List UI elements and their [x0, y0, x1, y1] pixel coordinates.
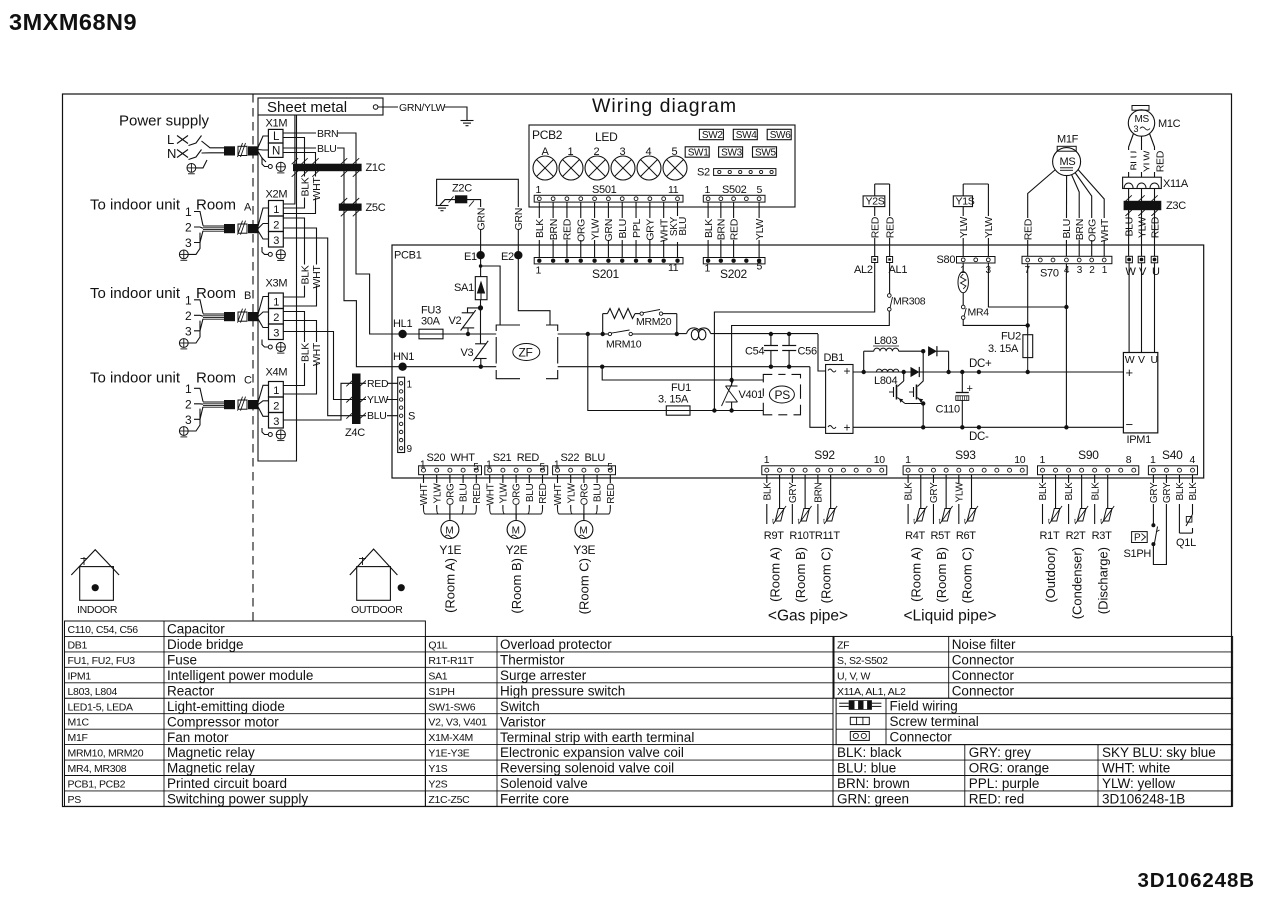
- svg-text:RED: RED: [869, 216, 881, 238]
- svg-text:BLU: BLU: [585, 452, 606, 464]
- wire AL2 to FU1 line: [714, 263, 874, 411]
- connector S 9-pin: [398, 377, 405, 452]
- switching power supply PS box: [763, 374, 772, 382]
- svg-text:YLW: YLW: [566, 483, 577, 504]
- connector S201 pin dot: [661, 259, 665, 263]
- solenoid valve Y2S box: [863, 196, 885, 207]
- wire U to IPM1: [1154, 263, 1156, 353]
- svg-text:S201: S201: [592, 267, 619, 281]
- svg-text:1: 1: [764, 454, 770, 466]
- wire S502 to S202: [733, 202, 735, 257]
- symbol legend rows grid: [836, 698, 1233, 744]
- node C110 bottom: [960, 425, 964, 429]
- wire S70-4 BLU down: [1065, 264, 1067, 428]
- svg-text:S90: S90: [1078, 448, 1099, 462]
- X4M terminal 2 box: [269, 397, 284, 413]
- ground symbol top: [461, 120, 474, 122]
- svg-text:GRY: GRY: [929, 482, 940, 503]
- label WHT vertical X1M-X2M: [311, 177, 322, 198]
- svg-text:3MXM68N9: 3MXM68N9: [9, 9, 137, 35]
- svg-text:V: V: [1139, 266, 1147, 278]
- svg-text:SA1: SA1: [428, 670, 447, 682]
- noise filter ZF box: [496, 325, 520, 331]
- X3M earth hook wire: [262, 340, 268, 348]
- svg-text:Z4C: Z4C: [345, 427, 365, 439]
- svg-text:V3: V3: [461, 347, 474, 359]
- svg-text:Intelligent power module: Intelligent power module: [167, 668, 313, 683]
- wire S501 to S201: [677, 202, 679, 257]
- svg-text:N: N: [167, 146, 176, 161]
- svg-text:Diode bridge: Diode bridge: [167, 637, 244, 652]
- switch SW1: [685, 147, 709, 157]
- svg-text:S40: S40: [1162, 448, 1183, 462]
- wire S20 ORG to bundle: [449, 505, 451, 519]
- node DC+ dot: [977, 370, 981, 374]
- svg-text:3: 3: [185, 324, 192, 338]
- svg-text:W: W: [1126, 266, 1137, 278]
- node MRM left: [601, 332, 605, 336]
- svg-text:(Room C): (Room C): [818, 547, 833, 603]
- svg-text:C: C: [244, 375, 252, 387]
- svg-text:Y1S: Y1S: [956, 196, 975, 208]
- thermistor R4T: [920, 475, 922, 480]
- label YLW row: [366, 394, 387, 405]
- svg-text:BLK: BLK: [299, 343, 311, 362]
- svg-text:WHT: WHT: [311, 265, 323, 289]
- X11A socket arc: [1150, 183, 1159, 188]
- wire S40 BLK: [1191, 475, 1193, 483]
- connector S201 pin dot: [648, 259, 652, 263]
- label WHT vertical M1F: [1099, 218, 1110, 240]
- S1PH P box: [1132, 532, 1148, 543]
- connector S22: [553, 466, 616, 475]
- svg-text:SW1-SW6: SW1-SW6: [428, 701, 475, 713]
- bus X2M-X3M BLK: [283, 218, 304, 297]
- svg-text:OUTDOOR: OUTDOOR: [351, 604, 403, 616]
- label BRN vertical: [548, 218, 559, 240]
- svg-text:(Room B): (Room B): [793, 547, 808, 603]
- X3M terminal 2 box: [269, 309, 284, 325]
- DB1 tilde top: [828, 369, 836, 372]
- X4M earth symbol: [276, 430, 285, 439]
- wire X2M-3 to Z4C BLU row: [283, 238, 352, 416]
- wire sheet metal to GRN/YLW: [378, 106, 398, 108]
- svg-text:L804: L804: [874, 375, 897, 387]
- overload protector Q1L: [1186, 514, 1193, 526]
- connector S80: [957, 257, 996, 264]
- wire Z4C YLW row: [361, 399, 398, 401]
- solenoid Y2S wires: [874, 184, 876, 196]
- thermistor R9T: [779, 475, 781, 480]
- label BLK vertical X1M-X2M: [299, 177, 310, 198]
- svg-text:Electronic expansion valve coi: Electronic expansion valve coil: [500, 745, 684, 760]
- wire FU3 to ZF: [443, 333, 496, 335]
- svg-text:3D106248B: 3D106248B: [1137, 869, 1255, 892]
- svg-text:BLK: BLK: [534, 219, 546, 238]
- connector S502 pin: [706, 197, 710, 201]
- svg-text:Reactor: Reactor: [167, 683, 215, 698]
- wire S70-7 RED down: [1027, 264, 1029, 326]
- wire down to DB1 top: [818, 334, 826, 371]
- svg-text:S21: S21: [493, 452, 512, 464]
- svg-text:RED: RED: [538, 483, 549, 503]
- svg-text:Y1S: Y1S: [428, 763, 447, 775]
- M1F wire BLU: [1065, 176, 1067, 257]
- diode D-up: [928, 346, 937, 356]
- svg-text:R9T: R9T: [764, 530, 784, 542]
- wire S80-3 to DC- drop: [988, 263, 1066, 308]
- room B earth symbol: [179, 339, 188, 348]
- svg-text:FU1: FU1: [671, 382, 691, 394]
- svg-text:S502: S502: [722, 184, 747, 196]
- wire S93 YLW: [958, 475, 960, 483]
- Z1C hatch marks: [353, 158, 359, 164]
- connector S501 pin: [565, 197, 569, 201]
- wire S20 YLW: [436, 475, 438, 483]
- node E1: [476, 251, 484, 259]
- right legend table grid: [834, 636, 1233, 698]
- wire E2 GRN to ground: [437, 179, 519, 252]
- connector S80 pin: [986, 258, 990, 262]
- connector S501 pin: [593, 197, 597, 201]
- svg-text:Y3E: Y3E: [573, 543, 595, 557]
- fuse FU3: [419, 329, 443, 339]
- expansion valve motor Y1E: [441, 521, 459, 539]
- wire SA1 to V-node: [480, 300, 482, 308]
- transistor Q-igbt2: [918, 351, 924, 386]
- wire L stub BRN: [283, 132, 316, 134]
- svg-text:BLK: black: BLK: black: [837, 745, 902, 760]
- DB1 tilde bottom: [828, 426, 836, 429]
- wire S40 pin2 loop: [1153, 504, 1166, 565]
- wire N jumper bus WHT: [283, 153, 316, 214]
- earth hook wire: [196, 160, 207, 168]
- svg-text:PPL: purple: PPL: purple: [969, 776, 1040, 791]
- outer border frame: [63, 94, 1232, 807]
- connector S201 pin dot: [620, 259, 624, 263]
- connector S20: [419, 466, 482, 475]
- connector S pin: [399, 438, 402, 441]
- node V401 bottom: [729, 408, 733, 412]
- connector S pin: [399, 446, 402, 449]
- svg-text:Y2S: Y2S: [428, 779, 447, 791]
- svg-text:BRN: BRN: [716, 219, 728, 240]
- svg-text:1: 1: [185, 205, 192, 219]
- wire ZF out bottom: [558, 366, 810, 368]
- connector S501 pin: [676, 197, 680, 201]
- svg-text:A: A: [542, 146, 550, 158]
- room C cable fanout: [258, 385, 269, 402]
- svg-text:S20: S20: [427, 452, 446, 464]
- svg-text:SW1: SW1: [688, 148, 710, 159]
- svg-text:S1PH: S1PH: [428, 686, 454, 698]
- connector S201 pin dot: [634, 259, 638, 263]
- svg-text:Fuse: Fuse: [167, 653, 197, 668]
- fuse FU2: [1027, 325, 1029, 334]
- ferrite core Z3C: [1124, 201, 1162, 210]
- LED 5 lamp: [663, 156, 687, 180]
- svg-text:RED: RED: [884, 216, 896, 238]
- label BLU vertical M1C top: [1123, 150, 1134, 172]
- svg-text:PPL: PPL: [631, 219, 643, 238]
- svg-text:(Room B): (Room B): [934, 547, 949, 603]
- connector S502 pin: [744, 197, 748, 201]
- svg-text:GRY: grey: GRY: grey: [969, 745, 1031, 760]
- thermistor R2T: [1081, 475, 1083, 480]
- svg-text:BLK: BLK: [299, 265, 311, 284]
- svg-text:GRN: GRN: [513, 208, 525, 230]
- svg-text:RED: RED: [562, 218, 574, 240]
- label YLW vertical: [589, 218, 600, 240]
- wire S502 to S202: [707, 202, 709, 257]
- LED 4 lamp: [637, 156, 661, 180]
- svg-text:WHT: WHT: [311, 342, 323, 366]
- wire S1PH pin1: [1152, 504, 1154, 524]
- node C110 top: [960, 370, 964, 374]
- connector X11A: [1123, 177, 1162, 188]
- Z3C hatch marks: [1151, 195, 1157, 201]
- wire Z3C to YLW terminal: [1141, 210, 1143, 256]
- svg-text:RED: RED: [517, 452, 540, 464]
- wire E1 to SA1: [480, 255, 482, 276]
- svg-text:BLU: BLU: [678, 217, 689, 236]
- label ORG vertical M1F: [1087, 218, 1098, 240]
- switch arm N: [189, 150, 202, 160]
- label BLU vertical M1C bottom: [1123, 216, 1134, 238]
- reactor L804: [876, 369, 898, 372]
- wire S40 GRY: [1165, 475, 1167, 483]
- indoor/outdoor dashed boundary: [252, 94, 254, 621]
- svg-text:Room: Room: [196, 197, 236, 214]
- svg-text:(Room A): (Room A): [443, 558, 458, 613]
- svg-text:MR308: MR308: [893, 296, 926, 308]
- svg-text:Z5C: Z5C: [366, 202, 386, 214]
- svg-text:GRN: green: GRN: green: [837, 792, 909, 807]
- svg-text:3: 3: [1077, 265, 1083, 276]
- wire FU1 to PS: [690, 410, 763, 412]
- svg-text:Varistor: Varistor: [500, 714, 546, 729]
- svg-text:C56: C56: [798, 346, 817, 358]
- connector S pin: [399, 414, 402, 417]
- connector S501 pin: [551, 197, 555, 201]
- bus X3M-X4M WHT: [283, 321, 316, 395]
- svg-text:BRN: brown: BRN: brown: [837, 776, 910, 791]
- wire S501 to S201: [663, 202, 665, 257]
- svg-text:IPM1: IPM1: [68, 670, 92, 682]
- node C56 top: [787, 332, 791, 336]
- thermistor R10T: [804, 475, 806, 480]
- high pressure switch S1PH: [1151, 523, 1155, 527]
- wire V401 bottom stub: [731, 402, 733, 411]
- label BRN vertical: [716, 218, 727, 240]
- wire S21 YLW: [502, 475, 504, 483]
- expansion valve motor Y2E: [507, 521, 525, 539]
- X4M earth hook wire: [262, 428, 268, 435]
- connector S2 pin: [728, 170, 731, 173]
- resistor MRM20: [607, 309, 635, 319]
- transistor Q-igbt1: [903, 372, 905, 381]
- node BLU drop join: [1064, 305, 1068, 309]
- svg-text:(Room B): (Room B): [509, 558, 524, 614]
- wire N stub BLU: [283, 147, 316, 149]
- svg-text:V2: V2: [449, 315, 462, 327]
- wire node to V3: [480, 308, 482, 344]
- svg-text:5: 5: [672, 146, 678, 158]
- connector S70 pin: [1102, 258, 1106, 262]
- wire MRM up left: [602, 314, 604, 334]
- svg-text:GRY: GRY: [788, 482, 799, 503]
- screw terminal W: [1126, 256, 1133, 263]
- connector S2 pin: [718, 170, 721, 173]
- svg-text:E1: E1: [464, 251, 477, 263]
- svg-text:RED: RED: [1149, 216, 1161, 238]
- wire S21 RED: [542, 475, 544, 483]
- node V401 top: [729, 378, 733, 382]
- svg-text:IPM1: IPM1: [1127, 434, 1152, 446]
- svg-text:BLK: BLK: [904, 482, 915, 501]
- svg-text:U: U: [1151, 354, 1158, 366]
- svg-text:YLW: YLW: [589, 219, 601, 240]
- svg-text:BRN: BRN: [813, 482, 824, 502]
- wire S22 ORG: [583, 475, 585, 483]
- svg-text:C54: C54: [745, 346, 764, 358]
- label YLW vertical S80-1: [958, 216, 969, 238]
- svg-text:Room: Room: [196, 285, 236, 302]
- connector S202 pin dot: [757, 259, 761, 263]
- M1C wire YLW: [1141, 136, 1143, 177]
- Z4C hatch marks: [346, 413, 352, 419]
- svg-text:Magnetic relay: Magnetic relay: [167, 745, 255, 760]
- wire S90 BLK: [1094, 475, 1096, 483]
- PCB1 board box: [392, 245, 1204, 478]
- screw terminal U: [1151, 256, 1158, 263]
- svg-text:Thermistor: Thermistor: [500, 653, 565, 668]
- ferrite core Z5C: [339, 204, 362, 211]
- svg-text:LED1-5, LEDA: LED1-5, LEDA: [68, 701, 134, 713]
- svg-text:PS: PS: [775, 388, 791, 402]
- PCB2 board box: [529, 125, 795, 207]
- connector S501 pin: [579, 197, 583, 201]
- svg-text:t: t: [939, 518, 941, 525]
- wire HN1 branch to PS: [602, 367, 763, 380]
- wire node to V2: [468, 308, 481, 313]
- svg-text:Y2S: Y2S: [866, 196, 885, 208]
- svg-text:R11T: R11T: [815, 530, 840, 542]
- wire X11A to Z3C: [1154, 189, 1156, 216]
- Z1C hatch marks: [292, 158, 298, 164]
- X2M terminal 2 box: [269, 216, 284, 232]
- connector S501 pin: [634, 197, 638, 201]
- wire Q1L pin3: [1178, 504, 1180, 533]
- room A lead 2 hook: [194, 227, 203, 228]
- svg-text:2: 2: [594, 146, 600, 158]
- node L804 right: [902, 370, 906, 374]
- svg-text:Switching power supply: Switching power supply: [167, 792, 308, 807]
- fuse FU1: [666, 406, 690, 415]
- svg-text:BLU: BLU: [1123, 217, 1135, 237]
- svg-text:t: t: [772, 518, 774, 525]
- svg-text:1: 1: [273, 385, 279, 397]
- label RED vertical: [728, 218, 739, 240]
- svg-text:R4T: R4T: [905, 530, 925, 542]
- room B earth hook: [188, 321, 200, 343]
- compressor motor M1C circle: [1128, 110, 1154, 136]
- svg-text:GRN/YLW: GRN/YLW: [399, 102, 446, 114]
- svg-text:WHT: WHT: [485, 483, 496, 505]
- outdoor house icon: [350, 549, 398, 575]
- svg-text:V2, V3, V401: V2, V3, V401: [428, 717, 487, 729]
- wire S22 YLW: [570, 475, 572, 483]
- wire X11A to Z3C: [1141, 189, 1143, 216]
- svg-text:GRY: GRY: [1149, 482, 1160, 503]
- svg-text:INDOOR: INDOOR: [77, 604, 118, 616]
- label BRN vertical M1F: [1074, 218, 1085, 240]
- colour code table grid: [833, 745, 1233, 807]
- node V3 bottom: [479, 365, 483, 369]
- power supply earth symbol: [187, 164, 196, 173]
- svg-text:Y1E-Y3E: Y1E-Y3E: [428, 748, 469, 760]
- room A lead 3 hook: [194, 231, 203, 243]
- svg-text:DC+: DC+: [969, 358, 992, 370]
- label BLU row: [366, 410, 387, 421]
- wire Z3C to RED terminal: [1154, 210, 1156, 256]
- node HN1: [398, 363, 406, 371]
- svg-text:To indoor unit: To indoor unit: [90, 197, 181, 214]
- svg-text:Printed circuit board: Printed circuit board: [167, 776, 287, 791]
- svg-text:S, S2-S502: S, S2-S502: [837, 655, 888, 667]
- M1F wire WHT: [1078, 170, 1104, 257]
- svg-text:YLW: YLW: [954, 482, 965, 503]
- svg-text:8: 8: [1126, 454, 1132, 466]
- svg-text:S22: S22: [561, 452, 580, 464]
- svg-text:t: t: [913, 518, 915, 525]
- connector S70 pin: [1026, 258, 1030, 262]
- connector S92: [762, 466, 887, 475]
- node DC- dot: [977, 425, 981, 429]
- node E1 branch dot: [479, 264, 483, 268]
- svg-text:S92: S92: [814, 448, 835, 462]
- connector S502 pin: [732, 197, 736, 201]
- X2M terminal 1 box: [269, 201, 284, 217]
- connector S pin: [399, 406, 402, 409]
- wire up to L803: [863, 351, 865, 372]
- label BLU vertical: [617, 218, 628, 240]
- wire X11A to Z3C: [1128, 189, 1130, 216]
- svg-text:3: 3: [620, 146, 626, 158]
- wire HL1 line: [392, 333, 419, 335]
- svg-text:X2M: X2M: [266, 189, 288, 201]
- svg-text:3: 3: [185, 236, 192, 250]
- svg-text:MRM10, MRM20: MRM10, MRM20: [68, 748, 144, 760]
- label SKY BLU vertical: [668, 216, 687, 242]
- room C lead 3 hook: [194, 407, 203, 420]
- svg-text:DB1: DB1: [68, 639, 88, 651]
- svg-text:SW5: SW5: [755, 148, 777, 159]
- terminal AL1: [887, 257, 893, 263]
- svg-text:ORG: ORG: [446, 483, 457, 505]
- label RED row: [366, 378, 387, 389]
- svg-text:S2: S2: [697, 167, 710, 179]
- wire S92 BLK: [766, 475, 768, 483]
- room B cable sheath: [224, 312, 235, 321]
- switch SW4: [733, 129, 757, 139]
- label WHT vertical X3M-X4M: [311, 342, 322, 363]
- M1F wire RED: [1028, 170, 1056, 257]
- svg-text:Y2E: Y2E: [506, 543, 528, 557]
- connector S93: [903, 466, 1027, 475]
- svg-text:Connector: Connector: [952, 683, 1015, 698]
- svg-text:To indoor unit: To indoor unit: [90, 370, 181, 387]
